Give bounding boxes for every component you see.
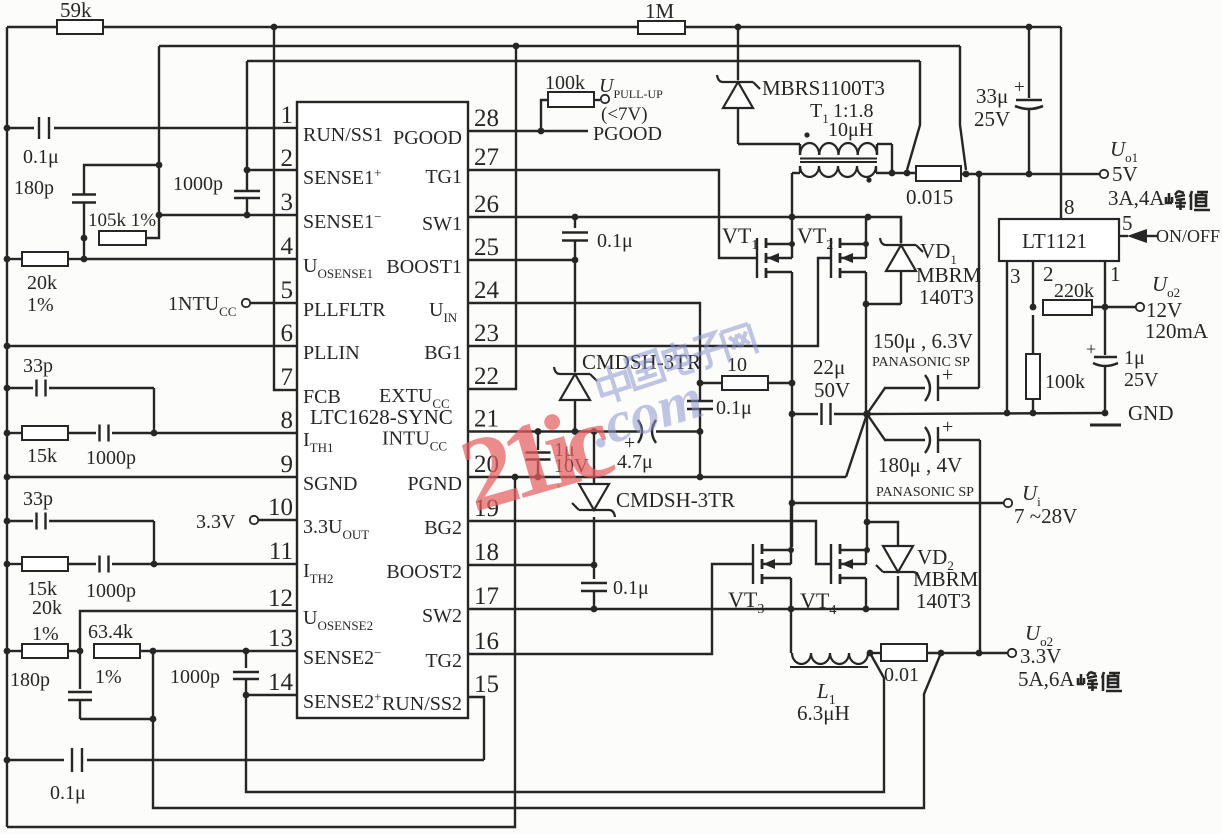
wire 33p2 to ith2 — [153, 521, 155, 564]
node vin-22u — [789, 411, 796, 418]
wire PLLIN pin6 line — [7, 345, 297, 347]
svg-text:MBRM: MBRM — [913, 567, 979, 591]
node boost2 — [591, 562, 598, 569]
svg-text:MBRS1100T3: MBRS1100T3 — [762, 76, 885, 100]
pin 5 ON/OFF — [1119, 211, 1220, 246]
node rail-0.1u — [4, 125, 11, 132]
op-amp U1 LTC1628-SYNC IC — [268, 102, 500, 718]
svg-text:0.1μ: 0.1μ — [613, 577, 649, 599]
wire TG2 to VT3 gate — [468, 564, 753, 654]
svg-text:CMDSH-3TR: CMDSH-3TR — [616, 488, 735, 512]
svg-text:SENSE2−: SENSE2− — [303, 645, 381, 669]
svg-text:3.3V: 3.3V — [1020, 644, 1061, 668]
wire 105k down to pin4 line — [83, 238, 85, 259]
node 1000p s2 bottom — [243, 692, 250, 699]
capacitor 22u 50V — [792, 355, 867, 425]
node boost1 — [572, 257, 579, 264]
terminal Ui 7-28V — [1004, 481, 1077, 528]
svg-text:33μ: 33μ — [976, 84, 1008, 108]
svg-text:0.1μ: 0.1μ — [50, 782, 86, 804]
wire BOOST1 line — [468, 259, 575, 261]
svg-text:17: 17 — [474, 583, 499, 610]
wire secondary right drop — [891, 144, 893, 173]
pin 3 wire — [1007, 261, 1021, 413]
wire bottom SGND-PGND bus — [7, 477, 515, 827]
node rail-pllin — [4, 343, 11, 350]
wire PGND line — [468, 476, 846, 478]
wire Ui input line — [792, 502, 1008, 504]
wire pgnd slant to gnd bus — [846, 414, 867, 477]
wire SENSE1- rail B — [159, 45, 960, 47]
node pin4 junction — [81, 256, 88, 263]
wire boost rail drop to LT1121 pin 8 — [1060, 27, 1062, 219]
node 180p2 bottom — [150, 716, 157, 723]
wire gnd bus right — [867, 413, 1105, 414]
svg-text:15: 15 — [474, 671, 499, 698]
svg-text:MBRM: MBRM — [916, 263, 982, 287]
node sw2-l1 — [788, 606, 795, 613]
wire FCB vertical — [274, 27, 297, 390]
transformer T1 1:1.8 10uH — [792, 100, 916, 183]
node uin cap bottom — [697, 428, 704, 435]
svg-text:1μ: 1μ — [1124, 347, 1145, 369]
wire VT3 source to SW2 — [790, 578, 792, 609]
node vin line start — [789, 500, 796, 507]
svg-text:7 ~28V: 7 ~28V — [1014, 504, 1077, 528]
node vt1 join — [789, 241, 795, 247]
svg-text:63.4k: 63.4k — [88, 621, 133, 643]
resistor 0.01 sense — [868, 644, 927, 686]
svg-text:15k: 15k — [27, 445, 57, 467]
capacitor 1000p (sense1) — [173, 61, 260, 215]
svg-text:23: 23 — [474, 320, 499, 347]
svg-text:+: + — [942, 416, 953, 438]
svg-text:180p: 180p — [14, 177, 54, 199]
svg-text:8: 8 — [281, 407, 294, 434]
svg-text:PANASONIC SP: PANASONIC SP — [876, 485, 974, 500]
terminal U_PULL-UP — [593, 75, 663, 145]
node EXTUCC tap on rail B — [513, 43, 520, 50]
node pgood-100k — [538, 128, 545, 135]
watermark — [626, 350, 665, 389]
svg-text:14: 14 — [268, 669, 294, 696]
wire VT4 source to SW2 — [865, 578, 867, 609]
svg-text:1%: 1% — [95, 666, 122, 688]
svg-text:TG2: TG2 — [425, 650, 462, 672]
svg-text:1: 1 — [1110, 262, 1121, 286]
svg-text:3A,4A: 3A,4A — [1108, 186, 1165, 210]
node pgnd-515 — [512, 474, 519, 481]
svg-text:0.1μ: 0.1μ — [716, 397, 752, 419]
node vt3 join — [788, 547, 794, 553]
svg-text:PGND: PGND — [408, 473, 462, 495]
svg-text:20k: 20k — [27, 272, 57, 294]
wire pin2 line — [247, 169, 297, 171]
node sense1- mid — [156, 212, 163, 219]
svg-text:0.015: 0.015 — [906, 185, 953, 209]
wire INTUCC line — [468, 430, 640, 432]
svg-text:FCB: FCB — [303, 386, 341, 408]
wire top boost rail with corners — [7, 26, 1061, 28]
watermark — [661, 339, 694, 378]
node intvcc-d2 — [591, 428, 598, 435]
wire Uo2 line — [927, 652, 1010, 654]
svg-text:7: 7 — [281, 364, 294, 391]
node 1000p bottom pin3 — [244, 212, 251, 219]
capacitor 0.1u boost1 — [562, 217, 633, 260]
node pin3 gnd — [1004, 410, 1011, 417]
resistor 100k fb — [1026, 315, 1085, 413]
capacitor 180u 4V — [867, 414, 980, 653]
terminal 3.3V pin10 — [196, 511, 297, 533]
svg-text:26: 26 — [474, 191, 499, 218]
node gnd end — [1102, 410, 1109, 417]
capacitor 150u 6.3V — [867, 174, 979, 414]
node rail-20k2 — [4, 648, 11, 655]
watermark — [721, 324, 758, 362]
wire vt2 source to gnd — [865, 304, 867, 414]
svg-text:6: 6 — [281, 320, 294, 347]
svg-text:1%: 1% — [32, 623, 59, 645]
terminal Uo1 5V — [1100, 137, 1166, 210]
capacitor 180p (top) — [14, 177, 96, 203]
capacitor 33u 25V — [974, 27, 1043, 174]
node pgnd-vd2 — [864, 519, 871, 526]
wire VT1 drain down — [791, 272, 793, 383]
svg-text:140T3: 140T3 — [916, 589, 971, 613]
svg-text:9: 9 — [281, 451, 294, 478]
node sec-right — [889, 170, 896, 177]
svg-text:PLLFLTR: PLLFLTR — [303, 299, 386, 321]
node intvcc-1u — [535, 428, 542, 435]
ground symbol — [1090, 401, 1174, 425]
capacitor 4.7u intvcc — [617, 420, 700, 473]
node gnd X junction — [863, 410, 871, 418]
svg-text:6.3μH: 6.3μH — [797, 701, 850, 725]
node rail-15k1 — [4, 430, 11, 437]
svg-text:22: 22 — [474, 363, 499, 390]
svg-text:PGOOD: PGOOD — [593, 123, 662, 145]
capacitor 33p lower — [7, 488, 154, 530]
terminal Uo2 3.3V — [1008, 621, 1076, 691]
svg-text:1000p: 1000p — [170, 666, 220, 688]
node rail-33p2 — [4, 518, 11, 525]
svg-text:RUN/SS2: RUN/SS2 — [382, 693, 462, 715]
node l1-0.015 — [867, 650, 874, 657]
resistor 15k lower — [7, 557, 96, 600]
capacitor 0.1u run/ss2 — [7, 748, 484, 804]
svg-text:RUN/SS1: RUN/SS1 — [303, 124, 383, 146]
svg-text:11: 11 — [269, 538, 293, 565]
wire pin14 line — [246, 694, 297, 696]
svg-text:GND: GND — [1128, 401, 1174, 425]
wire pin4 line right — [84, 258, 297, 260]
node 180u tap — [976, 650, 983, 657]
wire VT2 drain to SW1 — [865, 217, 867, 244]
wire primary left to SW1 — [791, 173, 793, 217]
pin 2 wire — [1033, 261, 1054, 307]
wire uosense2 branch — [80, 611, 297, 651]
transistor Q4 VT4 — [800, 544, 866, 618]
svg-text:2: 2 — [281, 145, 294, 172]
wire diode to secondary — [738, 143, 800, 145]
node 100k bottom — [1030, 410, 1037, 417]
svg-text:1000p: 1000p — [86, 580, 136, 602]
svg-text:4.7μ: 4.7μ — [617, 451, 653, 473]
node 0.015 right — [963, 171, 970, 178]
svg-text:3: 3 — [281, 189, 294, 216]
svg-text:50V: 50V — [814, 378, 850, 402]
node rail-33p1 — [4, 385, 11, 392]
resistor 20k 1% upper — [7, 252, 84, 316]
wire pin13 line — [140, 650, 297, 652]
resistor 1M — [638, 0, 685, 34]
resistor 63.4k 1% — [88, 621, 140, 688]
node 20k2-63.4k junction — [77, 648, 84, 655]
svg-text:28: 28 — [474, 105, 499, 132]
watermark — [689, 332, 728, 371]
capacitor 1u 10V — [526, 432, 590, 478]
node 220k right — [1102, 304, 1109, 311]
wire left SGND rail — [6, 27, 8, 827]
node rail-15k2 — [4, 561, 11, 568]
svg-text:12: 12 — [268, 585, 293, 612]
wire run/ss2 drop — [468, 697, 484, 760]
wire EXTUCC vertical to pin 22 — [468, 46, 516, 389]
node pin2-220k — [1030, 304, 1037, 311]
node rail-20k — [4, 256, 11, 263]
op-amp U2 LT1121 — [999, 219, 1119, 261]
node 33u top junction — [1026, 24, 1033, 31]
wire VT1 source to SW1 — [791, 217, 793, 244]
wire rail B drop — [146, 46, 159, 238]
resistor 0.015 sense — [906, 166, 961, 209]
wire VT2 source down — [865, 272, 867, 304]
node FCB divider junction — [271, 24, 278, 31]
svg-text:3.3V: 3.3V — [196, 511, 236, 533]
diode CMDSH-3TR lower — [572, 432, 735, 566]
wire TG1 to VT1 gate — [468, 170, 757, 258]
wire pgnd to vt4/vd2 — [866, 414, 868, 551]
svg-text:33p: 33p — [23, 488, 53, 510]
svg-text:BOOST1: BOOST1 — [386, 256, 462, 278]
wire sense2- kelvin bus — [153, 653, 941, 808]
node sw2-vt4 — [863, 606, 870, 613]
node pgnd-1u — [535, 474, 542, 481]
svg-text:105k 1%: 105k 1% — [88, 210, 156, 231]
svg-text:5A,6A: 5A,6A — [1018, 667, 1075, 691]
svg-text:2: 2 — [1043, 262, 1054, 286]
transistor Q2 VT2 — [797, 223, 866, 278]
svg-text:10μH: 10μH — [828, 119, 873, 141]
capacitor 1000p sense2 — [170, 651, 259, 695]
node uin filter — [697, 380, 704, 387]
svg-text:140T3: 140T3 — [919, 285, 974, 309]
resistor 59k — [57, 0, 103, 34]
wire BOOST2 line — [468, 564, 594, 566]
svg-text:100k: 100k — [1045, 371, 1085, 393]
wire Uo1 line — [961, 173, 1100, 175]
wire 33p to ith1 — [153, 388, 155, 433]
svg-text:20k: 20k — [32, 597, 62, 619]
svg-text:SW1: SW1 — [422, 213, 462, 235]
capacitor 0.1u boost2 — [581, 565, 649, 609]
terminal 1NTUcc pin5 — [168, 293, 297, 319]
svg-text:BG1: BG1 — [424, 342, 462, 364]
diode CMDSH-3TR upper — [554, 260, 701, 432]
wire SENSE1+ rail C — [247, 60, 920, 62]
node rail-sgnd — [4, 474, 11, 481]
svg-text:0.01: 0.01 — [884, 664, 919, 686]
diode VD2 MBRM140T3 — [876, 545, 979, 613]
svg-text:13: 13 — [268, 625, 293, 652]
wire vd1 anode link — [866, 303, 901, 305]
node 1M-diode junction — [735, 24, 742, 31]
svg-text:(<7V): (<7V) — [601, 104, 648, 125]
wire SW2 line — [468, 576, 898, 609]
svg-text:1%: 1% — [27, 294, 54, 316]
node SW1-VT2 — [865, 214, 872, 221]
svg-text:220k: 220k — [1054, 280, 1094, 302]
capacitor 33p upper — [7, 355, 154, 397]
wire BG2 to VT4 gate — [468, 521, 831, 564]
wire SW1 line — [468, 217, 901, 243]
node ith1 junction — [151, 430, 158, 437]
wire uin cap to pgnd — [699, 432, 701, 478]
svg-text:1M: 1M — [645, 0, 675, 23]
svg-text:SGND: SGND — [303, 473, 357, 495]
svg-text:25: 25 — [474, 234, 499, 261]
svg-text:TG1: TG1 — [425, 166, 462, 188]
node ith2 junction — [151, 561, 158, 568]
node intvcc-d1 — [572, 428, 579, 435]
node vt4 join — [864, 547, 870, 553]
node vt2-vd1 — [863, 301, 870, 308]
wire 180p branch top — [84, 165, 159, 194]
resistor 15k upper — [7, 426, 96, 467]
wire sense2+ kelvin bus — [246, 653, 884, 792]
wire sense2- drop — [152, 651, 154, 719]
diode MBRS1100T3 — [717, 27, 885, 144]
svg-text:16: 16 — [474, 628, 499, 655]
svg-text:4: 4 — [281, 233, 294, 260]
svg-text:BG2: BG2 — [424, 517, 462, 539]
wire vin vertical — [791, 383, 793, 547]
svg-text:18: 18 — [474, 539, 499, 566]
resistor 10 ohm — [700, 354, 792, 390]
node 0.015 left kelvin — [904, 170, 911, 177]
svg-text:100k: 100k — [545, 72, 585, 94]
watermark — [448, 381, 623, 534]
resistor 220k — [1043, 280, 1094, 315]
node vin-10ohm — [789, 380, 796, 387]
wire vd2 anode link — [867, 522, 898, 546]
node sw1-cap — [572, 214, 579, 221]
wire kelvin left 0.015 — [907, 61, 920, 170]
node 1000p s2 top — [243, 648, 250, 655]
svg-text:59k: 59k — [60, 0, 92, 22]
transistor Q3 VT3 — [728, 544, 791, 617]
svg-text:+: + — [1086, 339, 1096, 359]
wire 180p to 105k node — [83, 203, 85, 238]
svg-text:8: 8 — [1064, 195, 1075, 219]
capacitor 0.1u uin — [687, 383, 752, 432]
svg-text:33p: 33p — [23, 355, 53, 377]
node 105k left — [81, 235, 88, 242]
svg-text:SW2: SW2 — [422, 605, 462, 627]
node 1000p top pin2 — [244, 167, 251, 174]
diode VD1 MBRM140T3 — [880, 217, 982, 309]
wire SGND pin9 line — [7, 476, 297, 478]
capacitor 0.1u soft-start ch1 — [7, 117, 297, 168]
node vt2 join — [863, 241, 869, 247]
svg-text:24: 24 — [474, 277, 500, 304]
wire BG1 to VT2 gate — [468, 258, 831, 346]
capacitor 1000p ith1 — [86, 425, 297, 470]
svg-text:1000p: 1000p — [86, 447, 136, 469]
svg-text:ON/OFF: ON/OFF — [1156, 226, 1220, 246]
svg-text:PLLIN: PLLIN — [303, 342, 360, 364]
wire pin28 PGOOD line — [468, 130, 588, 132]
resistor 100k pull-up — [541, 72, 600, 131]
svg-text:SENSE2+: SENSE2+ — [303, 689, 381, 713]
svg-text:3: 3 — [1010, 264, 1021, 288]
wire UIN line — [468, 303, 700, 383]
node pgnd-700 — [697, 474, 704, 481]
inductor L1 6.3uH — [790, 609, 868, 725]
svg-text:BOOST2: BOOST2 — [386, 561, 462, 583]
svg-text:PANASONIC SP: PANASONIC SP — [872, 355, 970, 370]
svg-text:25V: 25V — [974, 107, 1010, 131]
svg-text:180p: 180p — [10, 669, 50, 691]
svg-text:5V: 5V — [1112, 162, 1138, 186]
node 33u bottom — [1026, 171, 1033, 178]
svg-text:10: 10 — [268, 494, 293, 521]
svg-text:1: 1 — [281, 102, 294, 129]
label peak-value hanzi for Uo1 — [1078, 191, 1210, 691]
node 0.01 right — [938, 650, 945, 657]
svg-text:5: 5 — [1122, 211, 1133, 235]
resistor 20k 1% lower — [7, 597, 80, 658]
wire kelvin right 0.015 — [960, 46, 966, 170]
svg-text:5: 5 — [281, 277, 294, 304]
terminal Uo2 12V — [1136, 272, 1209, 343]
node SW1-VT1 — [789, 214, 796, 221]
capacitor 180p lower — [10, 651, 154, 719]
node 63.4k right — [150, 648, 157, 655]
pin 1 wire — [1105, 261, 1121, 307]
capacitor 1000p ith2 — [86, 556, 297, 603]
svg-text:LTC1628-SYNC: LTC1628-SYNC — [310, 405, 453, 429]
svg-text:25V: 25V — [1124, 369, 1159, 391]
svg-text:LT1121: LT1121 — [1022, 229, 1087, 253]
node rail-0.1u2 — [4, 757, 11, 764]
node sw2-cap — [591, 606, 598, 613]
transistor Q1 VT1 — [722, 223, 792, 278]
wire pin3 line — [159, 214, 297, 216]
svg-text:27: 27 — [474, 144, 499, 171]
svg-text:SENSE1+: SENSE1+ — [303, 165, 381, 189]
svg-text:0.1μ: 0.1μ — [597, 230, 633, 252]
node sense1- top — [156, 162, 163, 169]
watermark — [594, 361, 633, 405]
svg-text:22μ: 22μ — [813, 355, 845, 379]
svg-text:150μ , 6.3V: 150μ , 6.3V — [873, 329, 973, 353]
svg-text:1000p: 1000p — [173, 173, 223, 195]
resistor 105k 1% — [88, 210, 156, 245]
svg-text:PGOOD: PGOOD — [393, 127, 462, 149]
svg-text:120mA: 120mA — [1145, 319, 1209, 343]
